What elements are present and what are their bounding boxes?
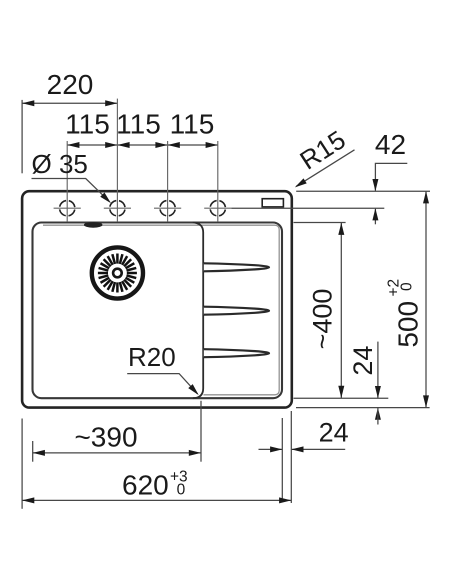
- svg-text:0: 0: [399, 282, 416, 291]
- svg-text:115: 115: [170, 109, 215, 140]
- dimension R15: leader: [296, 150, 354, 187]
- dimension 620: arrow left: [22, 497, 34, 503]
- tap hole 4: [204, 201, 231, 216]
- drain outer ring: [92, 247, 143, 298]
- bowl bottom extension: [294, 397, 389, 399]
- svg-text:500: 500: [393, 301, 424, 348]
- dimension D35: leader: [32, 179, 109, 201]
- dimension 24 bottom: left arrow: [259, 448, 283, 450]
- top edge extension line: [296, 190, 430, 192]
- svg-text:~400: ~400: [308, 289, 338, 350]
- hole centerline extension: [231, 207, 384, 209]
- dimension 220: arrow left: [22, 100, 34, 106]
- dimension 42: upper segment and bar: [375, 163, 407, 190]
- dimension 115 x3: dimension line: [67, 144, 218, 146]
- svg-text:115: 115: [65, 109, 110, 140]
- drainer groove 2: [204, 307, 269, 315]
- tap hole 1: [54, 201, 81, 216]
- dimension D35: arrowhead: [100, 192, 111, 203]
- drainer groove 1: [204, 263, 269, 271]
- hole 1 extension line: [66, 141, 68, 222]
- tap hole 2: [104, 201, 131, 216]
- dimension R15: arrowhead: [295, 178, 307, 187]
- dimension 220: arrow right: [105, 100, 117, 106]
- drain center: [113, 269, 122, 278]
- tap hole 3: [154, 201, 181, 216]
- rim rectangle cutout: [262, 199, 283, 207]
- svg-text:115: 115: [116, 109, 161, 140]
- dimension ~390: extension right: [200, 401, 202, 462]
- dimension ~400: dimension line: [340, 223, 342, 398]
- dimension 24 right: arrow up: [375, 408, 381, 420]
- svg-text:~390: ~390: [74, 422, 137, 453]
- dimension 620: dimension line: [22, 499, 291, 501]
- dimension 24 bottom: extension line outer: [290, 411, 292, 503]
- dimension ~390: dimension line: [33, 452, 201, 454]
- svg-text:24: 24: [319, 418, 349, 448]
- svg-text:220: 220: [47, 69, 94, 100]
- drain ribs: [98, 254, 137, 293]
- hole 3 extension line: [167, 141, 169, 222]
- dimension R20: arrowhead: [188, 384, 198, 395]
- dimension 220: dimension line: [22, 102, 117, 104]
- dimension 24 right: arrow down: [375, 386, 381, 398]
- hole 2 extension line: [116, 99, 118, 222]
- dimension 220: extension line left: [21, 100, 23, 173]
- dimension ~400: arrow down: [338, 386, 344, 398]
- dimension 24 right: lower segment: [377, 408, 379, 425]
- dimension R20: leader: [127, 374, 197, 394]
- svg-text:0: 0: [177, 481, 186, 498]
- dimension ~390: arrow right: [189, 450, 201, 456]
- dimension 620: extension left: [21, 419, 23, 509]
- svg-text:24: 24: [348, 346, 378, 376]
- svg-text:Ø 35: Ø 35: [32, 149, 88, 179]
- sink bottom extension: [296, 407, 430, 409]
- dimension 500: arrow up: [423, 191, 429, 203]
- drainboard top extension: [294, 222, 346, 224]
- hole 4 extension line: [217, 141, 219, 222]
- dimension 500: dimension line: [425, 192, 427, 408]
- dimension 500: arrow down: [423, 395, 429, 407]
- dimension 24 bottom: right segment: [292, 448, 346, 450]
- inner recess ledge line: [43, 225, 279, 395]
- dimension ~390: extension left: [32, 441, 34, 462]
- dimension ~390: arrow left: [33, 450, 45, 456]
- dimension 24 bottom: extension line inner: [281, 418, 283, 498]
- dimension 24 right: upper segment: [377, 342, 379, 398]
- inner recess outline: [33, 223, 283, 399]
- dimension 42: arrow down: [372, 179, 378, 191]
- sink outer outline: [22, 191, 292, 407]
- dimension 42: arrow up: [372, 208, 378, 220]
- overflow mark on bowl top edge: [84, 222, 103, 228]
- svg-text:R20: R20: [128, 342, 176, 372]
- dimension 42: lower segment: [374, 209, 376, 225]
- dimension 620: arrow right: [279, 497, 291, 503]
- drainer groove 3: [204, 349, 269, 357]
- dimension 115: arrows: [67, 142, 218, 148]
- dimension ~400: arrow up: [338, 223, 344, 235]
- svg-text:620: 620: [122, 470, 169, 501]
- bowl right edge: [193, 223, 203, 399]
- svg-text:42: 42: [375, 129, 406, 160]
